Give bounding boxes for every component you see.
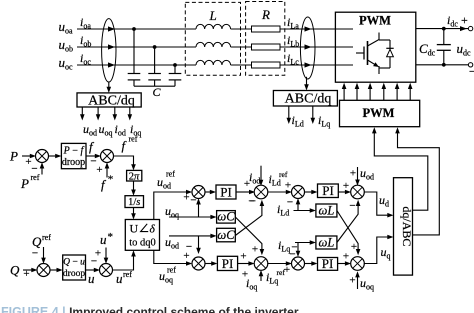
svg-text:+: + xyxy=(350,168,356,180)
svg-text:Q: Q xyxy=(10,263,20,278)
svg-text:u: u xyxy=(116,271,123,286)
svg-text:+: + xyxy=(351,241,357,253)
svg-text:R: R xyxy=(261,7,270,22)
svg-text:ref: ref xyxy=(167,266,176,275)
svg-text:ud: ud xyxy=(379,193,389,209)
svg-text:idc: idc xyxy=(447,13,458,29)
svg-text:P: P xyxy=(9,149,18,164)
svg-text:ref: ref xyxy=(42,233,51,242)
svg-text:to dq0: to dq0 xyxy=(129,238,156,249)
svg-text:ωC: ωC xyxy=(217,210,235,224)
svg-text:1/s: 1/s xyxy=(128,197,140,208)
svg-text:ioa: ioa xyxy=(80,15,91,31)
svg-text:PI: PI xyxy=(322,256,334,271)
svg-text:uod: uod xyxy=(360,166,374,182)
svg-text:−: − xyxy=(349,200,355,212)
svg-text:ref: ref xyxy=(279,170,288,179)
svg-text:droop: droop xyxy=(63,269,85,279)
svg-text:udc: udc xyxy=(457,41,472,58)
svg-text:u: u xyxy=(100,232,107,247)
svg-text:+: + xyxy=(183,250,189,262)
svg-text:uod: uod xyxy=(165,235,179,251)
svg-text:ωL: ωL xyxy=(319,236,335,250)
svg-text:iLa: iLa xyxy=(287,15,299,31)
svg-text:+: + xyxy=(252,244,258,256)
svg-text:iLb: iLb xyxy=(287,33,299,49)
svg-text:+: + xyxy=(244,178,250,190)
svg-text:+: + xyxy=(343,251,349,263)
svg-text:*: * xyxy=(108,174,114,186)
svg-text:+: + xyxy=(285,180,291,192)
svg-text:+: + xyxy=(23,268,29,280)
svg-text:P − f: P − f xyxy=(63,146,85,157)
svg-text:−: − xyxy=(32,248,38,260)
svg-text:Q: Q xyxy=(32,234,42,249)
svg-text:f: f xyxy=(122,138,128,153)
svg-text:L: L xyxy=(209,8,217,23)
svg-text:C: C xyxy=(153,85,162,99)
svg-text:PWM: PWM xyxy=(363,106,395,120)
svg-text:−: − xyxy=(287,196,293,208)
svg-text:Cdc: Cdc xyxy=(419,41,436,58)
svg-text:ref: ref xyxy=(123,270,132,279)
svg-text:droop: droop xyxy=(62,157,85,168)
svg-text:iob: iob xyxy=(80,33,91,49)
svg-text:−: − xyxy=(291,242,297,254)
svg-text:uoq: uoq xyxy=(360,276,374,292)
svg-text:dq/ABC: dq/ABC xyxy=(400,206,414,246)
svg-text:ABC/dq: ABC/dq xyxy=(88,93,135,108)
svg-text:ref: ref xyxy=(31,173,40,182)
svg-text:uoc: uoc xyxy=(59,55,74,72)
svg-text:u: u xyxy=(88,271,95,286)
svg-text:iLd: iLd xyxy=(292,113,304,129)
svg-text:+: + xyxy=(96,164,102,176)
svg-text:ABC/dq: ABC/dq xyxy=(285,92,332,107)
svg-text:+: + xyxy=(343,180,349,192)
svg-text:δ: δ xyxy=(150,224,156,236)
svg-text:iLq: iLq xyxy=(318,113,330,129)
svg-text:*: * xyxy=(108,231,114,243)
svg-text:uq: uq xyxy=(381,245,391,261)
svg-text:ωC: ωC xyxy=(217,228,235,242)
svg-text:PI: PI xyxy=(222,256,234,271)
svg-text:ioc: ioc xyxy=(80,51,91,67)
svg-text:−: − xyxy=(469,66,474,78)
svg-text:uob: uob xyxy=(59,37,74,54)
svg-text:uod: uod xyxy=(83,122,97,138)
svg-text:−: − xyxy=(190,195,196,207)
svg-text:−: − xyxy=(248,196,254,208)
svg-text:f: f xyxy=(89,139,95,154)
svg-text:PI: PI xyxy=(220,185,232,200)
svg-text:iLc: iLc xyxy=(287,51,299,67)
svg-text:+: + xyxy=(183,192,189,204)
svg-text:2π: 2π xyxy=(129,171,140,182)
svg-text:Q − u: Q − u xyxy=(63,258,85,268)
svg-text:+: + xyxy=(284,264,290,276)
svg-text:U: U xyxy=(130,222,139,236)
svg-text:+: + xyxy=(242,269,248,281)
svg-text:iLq: iLq xyxy=(278,238,290,254)
svg-text:iod: iod xyxy=(249,170,260,186)
svg-text:f: f xyxy=(101,177,107,192)
svg-text:P: P xyxy=(20,176,29,191)
svg-text:PI: PI xyxy=(322,183,334,198)
svg-text:+: + xyxy=(461,13,468,27)
svg-text:uoa: uoa xyxy=(59,19,74,36)
svg-text:ref: ref xyxy=(129,135,138,144)
svg-text:+: + xyxy=(349,275,355,287)
svg-text:uoq: uoq xyxy=(99,122,113,138)
svg-text:iod: iod xyxy=(115,122,126,138)
svg-text:+: + xyxy=(240,251,246,263)
svg-text:ωL: ωL xyxy=(319,204,335,218)
svg-text:ref: ref xyxy=(166,170,175,179)
svg-text:+: + xyxy=(95,248,101,260)
svg-text:PWM: PWM xyxy=(359,14,391,28)
